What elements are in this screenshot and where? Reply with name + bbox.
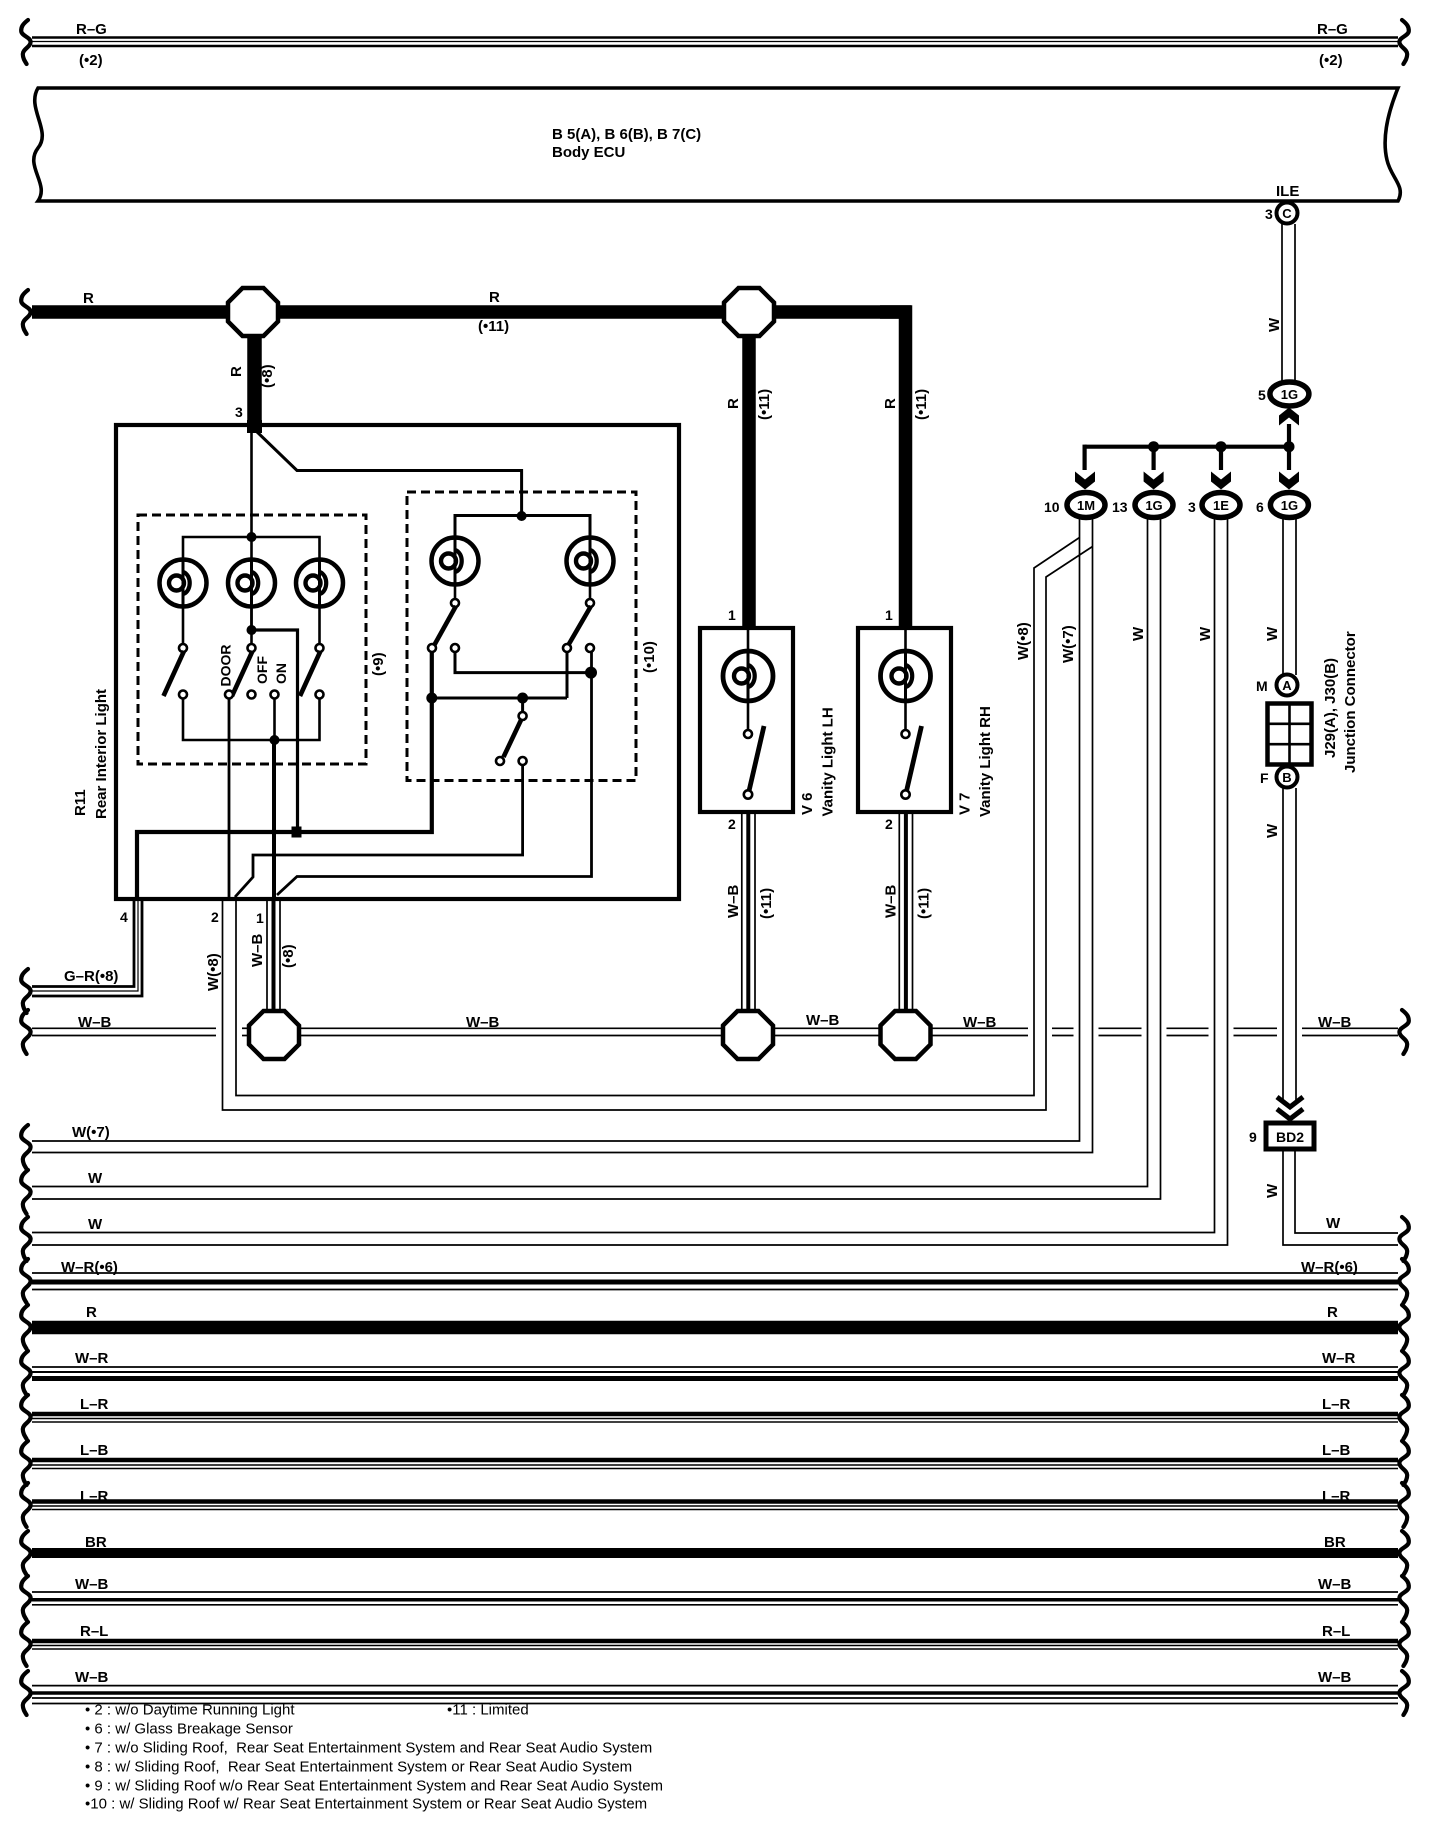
svg-text:B: B [1282, 770, 1291, 785]
V7 switch top contact [902, 730, 910, 738]
svg-text:A: A [1282, 678, 1292, 693]
switch6 top contact [519, 712, 527, 720]
wire pin4 G-R out [32, 901, 134, 987]
svg-text:3: 3 [1265, 206, 1273, 222]
switch6 contact b [519, 757, 527, 765]
switch1 bottom contact [179, 691, 187, 699]
svg-text:4: 4 [120, 909, 128, 925]
wire band BR [32, 1548, 1398, 1558]
svg-text:R–G: R–G [1317, 21, 1348, 38]
wire pin2 W(.8) out [236, 538, 1080, 1096]
continuation curl left band L-R [21, 1395, 30, 1439]
wire 1G13 W down to band2 [32, 518, 1148, 1187]
switch5 contact a [563, 644, 571, 652]
wire switch5a riser [566, 652, 569, 698]
svg-text:W–B: W–B [466, 1014, 500, 1031]
wire ON branch to G-R link [252, 630, 298, 832]
wire R-G (top battery line) [32, 38, 1398, 47]
link bus in box .10 [432, 697, 567, 700]
svg-text:(•2): (•2) [1319, 52, 1343, 69]
R11 Rear Interior Light box [116, 425, 679, 899]
V6 Vanity Light LH box [700, 628, 793, 812]
continuation curl right band L-R [1399, 1395, 1408, 1439]
svg-text:•11 : Limited: •11 : Limited [447, 1702, 529, 1719]
svg-text:• 8 : w/ Sliding Roof, Rear S: • 8 : w/ Sliding Roof, Rear Seat Enterta… [85, 1759, 632, 1776]
entry tab pin3 [247, 420, 262, 433]
svg-text:M: M [1256, 678, 1268, 694]
arrow down into 1M [1075, 472, 1095, 490]
continuation curl band2 [21, 1170, 30, 1214]
wire band W-R(.6) [32, 1273, 1398, 1290]
connector C circle [1277, 203, 1298, 224]
svg-text:1: 1 [885, 607, 893, 623]
switch4 contact a [428, 644, 436, 652]
continuation curl right band W-B 2 [1399, 1576, 1408, 1620]
continuation curl band3 [21, 1217, 30, 1261]
wire band L-R 2 [32, 1502, 1398, 1510]
svg-text:W: W [1264, 626, 1281, 641]
wire band R-L [32, 1641, 1398, 1649]
svg-text:W–B: W–B [1318, 1014, 1352, 1031]
switch5 contact b [586, 644, 594, 652]
svg-text:(•11): (•11) [913, 389, 930, 420]
wire pin1 W-B out [266, 901, 268, 1013]
junction dot [270, 735, 280, 745]
svg-text:W(•7): W(•7) [72, 1124, 110, 1141]
svg-text:R–L: R–L [80, 1623, 108, 1640]
bus to connectors [1085, 445, 1289, 449]
svg-text:W–B: W–B [249, 934, 266, 968]
junction dot [426, 693, 437, 704]
switch3 arm [300, 651, 321, 696]
svg-text:W–B: W–B [963, 1014, 997, 1031]
continuation curl left of R-G [21, 20, 30, 64]
switch3 bottom contact [316, 691, 324, 699]
switch5 top contact [586, 599, 594, 607]
svg-text:W: W [1264, 823, 1281, 838]
contact OFF [248, 691, 256, 699]
wire W-B main drop (pin1) [272, 740, 276, 899]
junction dot [247, 532, 257, 542]
svg-text:W–B: W–B [883, 885, 900, 919]
junction dot feed [517, 511, 527, 521]
arrow down into 1G6 [1279, 472, 1299, 490]
svg-text:R–G: R–G [76, 21, 107, 38]
svg-text:R: R [83, 290, 94, 307]
continuation curl right band L-B [1399, 1441, 1408, 1485]
svg-text:R: R [489, 289, 500, 306]
svg-text:(•8): (•8) [280, 944, 297, 968]
svg-text:W–B: W–B [806, 1012, 840, 1029]
arrow down into 1G13 [1144, 472, 1164, 490]
svg-text:1M: 1M [1077, 498, 1095, 513]
junction dot [1216, 441, 1227, 452]
svg-text:1G: 1G [1145, 498, 1162, 513]
svg-text:BD2: BD2 [1276, 1129, 1304, 1145]
svg-text:V 6: V 6 [799, 792, 816, 815]
arrow chevrons into BD2 [1277, 1097, 1303, 1107]
continuation curl left band R [21, 1305, 30, 1349]
continuation curl right band W-R [1399, 1351, 1408, 1395]
switch2 top contact [248, 644, 256, 652]
wire ILE W (C to 1G) [1281, 224, 1283, 381]
wire diagonal feed to variant-10 box [254, 429, 522, 518]
arrow down into 1E [1211, 472, 1231, 490]
junction blob on G-R link [292, 827, 302, 838]
continuation curl right of W-B [1399, 1010, 1408, 1054]
continuation curl right of R-G [1399, 20, 1408, 64]
svg-text:(•9): (•9) [370, 652, 387, 676]
wire 1G6 W down to junction connector [1282, 518, 1284, 676]
svg-text:W–R: W–R [75, 1350, 109, 1367]
svg-text:• 9 : w/ Sliding Roof w/o Rear: • 9 : w/ Sliding Roof w/o Rear Seat Ente… [85, 1778, 663, 1795]
svg-text:(•10): (•10) [641, 641, 658, 673]
stub to 1G6 [1287, 447, 1291, 470]
svg-text:10: 10 [1044, 499, 1060, 515]
svg-text:(•11): (•11) [916, 888, 933, 919]
lamp 5 [567, 538, 614, 585]
svg-text:R: R [1327, 1304, 1338, 1321]
junction blob [585, 667, 597, 679]
svg-text:R: R [882, 398, 899, 409]
switch1 top contact [179, 644, 187, 652]
svg-text:BR: BR [1324, 1534, 1346, 1551]
BD2 box [1266, 1123, 1314, 1149]
svg-text:W–R(•6): W–R(•6) [1301, 1259, 1358, 1276]
lamp 3 [296, 560, 343, 607]
svg-text:L–B: L–B [80, 1442, 109, 1459]
lamp 4 [432, 538, 479, 585]
svg-text:B 5(A), B 6(B), B 7(C): B 5(A), B 6(B), B 7(C) [552, 126, 701, 143]
svg-text:Junction Connector: Junction Connector [1342, 631, 1359, 773]
svg-text:W: W [88, 1170, 103, 1187]
svg-text:(•2): (•2) [79, 52, 103, 69]
switch2 arm [232, 651, 253, 696]
wire B down to BD2 [1282, 788, 1284, 1100]
svg-text:L–R: L–R [1322, 1488, 1351, 1505]
svg-text:W–B: W–B [78, 1014, 112, 1031]
svg-text:6: 6 [1256, 499, 1264, 515]
connector 1G oval (pin13) [1135, 493, 1173, 518]
wire lamp4 to switch [454, 585, 457, 599]
riser from ON contact [273, 699, 276, 741]
svg-text:W: W [1266, 317, 1283, 332]
V7 switch arm [907, 726, 922, 791]
junction dot [1284, 441, 1295, 452]
svg-text:R–L: R–L [1322, 1623, 1350, 1640]
svg-text:3: 3 [235, 404, 243, 420]
svg-text:(•8): (•8) [259, 364, 276, 388]
svg-text:W–B: W–B [725, 885, 742, 919]
wire W-B ground bus [32, 1028, 1398, 1035]
arrow up into 1G [1279, 408, 1299, 426]
lamp V6 [723, 651, 773, 701]
continuation curl right band BR [1399, 1531, 1408, 1575]
dashed box variant (.9) [138, 515, 366, 764]
ground junction octagon V6 [723, 1011, 773, 1059]
wire 1E W down to band3 [32, 518, 1215, 1233]
connector 1E oval [1202, 493, 1240, 518]
wire V7 lamp to switch [904, 701, 907, 730]
svg-text:W–B: W–B [1318, 1669, 1352, 1686]
svg-text:C: C [1282, 206, 1292, 221]
continuation curl right band R-L [1399, 1622, 1408, 1666]
junction octagon on R bus at R11 drop [228, 288, 278, 336]
svg-text:W(•8): W(•8) [205, 953, 222, 991]
svg-text:W: W [1326, 1215, 1341, 1232]
svg-text:Vanity Light LH: Vanity Light LH [820, 707, 837, 816]
V6 switch bottom contact [744, 790, 752, 798]
svg-text:ON: ON [273, 663, 289, 684]
wire lamp1 to switch [182, 607, 185, 645]
continuation curl G-R [21, 969, 30, 1013]
svg-text:9: 9 [1249, 1129, 1257, 1145]
wire band L-B [32, 1460, 1398, 1469]
svg-text:Rear Interior Light: Rear Interior Light [93, 689, 110, 819]
continuation curl left band L-R 2 [21, 1483, 30, 1527]
wire band R [32, 1321, 1398, 1335]
svg-text:Vanity Light RH: Vanity Light RH [977, 706, 994, 817]
svg-text:W: W [88, 1216, 103, 1233]
junction connector A circle [1277, 675, 1298, 696]
wire BD2 down to band3 right [1283, 1151, 1398, 1245]
svg-text:L–R: L–R [80, 1396, 109, 1413]
svg-text:L–R: L–R [1322, 1396, 1351, 1413]
lamp 1 [160, 560, 207, 607]
wire R main bus [32, 305, 911, 319]
wire contact b to blob [455, 652, 591, 673]
svg-text:W–B: W–B [75, 1669, 109, 1686]
svg-text:R: R [725, 398, 742, 409]
lamp bus in box .10 [455, 516, 590, 560]
stub to 1M [1082, 445, 1086, 470]
svg-text:F: F [1260, 770, 1269, 786]
switch5 arm [568, 606, 592, 647]
continuation curl band3 right [1399, 1217, 1408, 1261]
svg-text:2: 2 [885, 816, 893, 832]
wire lamp3 to switch [318, 607, 321, 645]
svg-text:2: 2 [728, 816, 736, 832]
continuation curl left band L-B [21, 1441, 30, 1485]
wire stub 1G to bus [1287, 424, 1291, 448]
svg-text:V 7: V 7 [957, 792, 974, 815]
ground junction octagon R11 [249, 1011, 299, 1059]
wire R elbow to V7 [880, 312, 906, 630]
continuation curl left band W-B 3 [21, 1671, 30, 1715]
junction octagon on R bus at V6 drop [724, 288, 774, 336]
continuation curl left band W-R [21, 1351, 30, 1395]
svg-text:1G: 1G [1281, 498, 1298, 513]
svg-text:• 7 : w/o Sliding Roof, Rear: • 7 : w/o Sliding Roof, Rear Seat Entert… [85, 1740, 652, 1757]
junction connector grid [1268, 704, 1312, 765]
svg-text:ILE: ILE [1276, 183, 1299, 200]
svg-text:L–R: L–R [80, 1488, 109, 1505]
bottom bus of box .9 [183, 699, 320, 741]
V6 switch top contact [744, 730, 752, 738]
Body ECU band B5(A),B6(B),B7(C) [34, 88, 1401, 201]
continuation curl left band W-B 2 [21, 1576, 30, 1620]
wire band W-B 2 [32, 1592, 1398, 1605]
continuation curl left of W-B [21, 1010, 30, 1054]
junction dot on lamp2 wire [247, 625, 257, 635]
svg-text:5: 5 [1258, 387, 1266, 403]
svg-text:• 6 : w/ Glass Breakage Sensor: • 6 : w/ Glass Breakage Sensor [85, 1721, 293, 1738]
wire G-R link (pin4 to variant-10 box) [137, 651, 432, 898]
continuation curl left band R-L [21, 1622, 30, 1666]
svg-text:(•11): (•11) [478, 318, 509, 335]
svg-text:W(•8): W(•8) [1015, 622, 1032, 660]
ground junction octagon V7 [881, 1011, 931, 1059]
svg-text:W: W [1264, 1183, 1281, 1198]
svg-text:1: 1 [256, 910, 264, 926]
switch4 arm [434, 606, 457, 647]
svg-text:OFF: OFF [254, 656, 270, 684]
wire lamp5 to switch [589, 585, 592, 599]
wire DOOR drop (pin2) [228, 699, 231, 900]
continuation curl right band W-B 3 [1399, 1671, 1408, 1715]
svg-text:W(•7): W(•7) [1060, 625, 1077, 663]
svg-text:Body ECU: Body ECU [552, 144, 625, 161]
svg-text:2: 2 [211, 909, 219, 925]
svg-text:R: R [86, 1304, 97, 1321]
svg-text:(•11): (•11) [758, 888, 775, 919]
continuation curl left band BR [21, 1531, 30, 1575]
wire band L-R [32, 1414, 1398, 1422]
svg-text:13: 13 [1112, 499, 1128, 515]
svg-text:W: W [1197, 626, 1214, 641]
lamp V7 [881, 651, 931, 701]
dashed box variant (.10) [407, 492, 636, 781]
junction dot [517, 693, 528, 704]
switch3 top contact [316, 644, 324, 652]
svg-text:1E: 1E [1213, 498, 1229, 513]
svg-text:•10 : w/ Sliding Roof w/ Rear: •10 : w/ Sliding Roof w/ Rear Seat Enter… [85, 1796, 647, 1813]
wire V7 W-B out [898, 812, 900, 1011]
lamp bus in box .9 [183, 537, 320, 559]
wire band W-B 3 [32, 1686, 1398, 1704]
wire R drop to V6 [742, 330, 756, 630]
wire band W-R [32, 1367, 1398, 1379]
lamp 2 [228, 560, 275, 607]
switch6 contact a [496, 757, 504, 765]
svg-text:1G: 1G [1281, 387, 1298, 402]
wire R drop to R11 pin 3 [247, 330, 262, 424]
wire variant-10 right switch to pin1 [277, 651, 592, 895]
wire V6 lamp feed [747, 630, 750, 653]
wire 1M W(.7) down to band1 [32, 518, 1080, 1142]
switch6 stub [521, 698, 524, 712]
contact DOOR [225, 691, 233, 699]
continuation curl left of R bus [21, 290, 30, 334]
wire V6 W-B out [741, 812, 743, 1011]
connector 1M oval [1067, 493, 1105, 518]
wire V6 lamp to switch [747, 701, 750, 730]
svg-text:W–R: W–R [1322, 1350, 1356, 1367]
continuation curl right band L-R 2 [1399, 1483, 1408, 1527]
stub to 1E [1219, 447, 1223, 470]
V6 switch arm [749, 726, 764, 791]
svg-text:W–R(•6): W–R(•6) [61, 1259, 118, 1276]
svg-text:W–B: W–B [1318, 1576, 1352, 1593]
continuation curl right band W-R(.6) [1399, 1259, 1408, 1303]
svg-text:R11: R11 [72, 789, 89, 816]
junction connector B circle [1277, 767, 1298, 788]
svg-text:• 2 : w/o Daytime Running Ligh: • 2 : w/o Daytime Running Light [85, 1702, 295, 1719]
continuation curl right band R [1399, 1305, 1408, 1349]
svg-text:DOOR: DOOR [218, 645, 234, 687]
svg-text:3: 3 [1188, 499, 1196, 515]
V7 Vanity Light RH box [858, 628, 951, 812]
svg-text:W: W [1130, 626, 1147, 641]
svg-text:L–B: L–B [1322, 1442, 1351, 1459]
V7 switch bottom contact [901, 790, 909, 798]
stub to 1G13 [1151, 447, 1155, 470]
connector 1G oval (pin5) [1270, 382, 1309, 406]
contact ON [271, 691, 279, 699]
svg-text:BR: BR [85, 1534, 107, 1551]
wire entry to lamp bus [250, 428, 253, 630]
switch1 arm [164, 651, 185, 696]
svg-text:(•11): (•11) [756, 389, 773, 420]
wire V7 lamp feed [904, 630, 907, 653]
connector 1G oval (pin6) [1270, 493, 1308, 518]
switch4 contact b [451, 644, 459, 652]
switch4 top contact [451, 599, 459, 607]
wire lamp2 to switch [250, 607, 253, 645]
svg-text:W–B: W–B [75, 1576, 109, 1593]
junction dot [1148, 441, 1159, 452]
switch6 arm [504, 719, 522, 757]
continuation curl band1 [21, 1125, 30, 1169]
svg-text:1: 1 [728, 607, 736, 623]
svg-text:G–R(•8): G–R(•8) [64, 968, 118, 985]
continuation curl left band W-R(.6) [21, 1259, 30, 1303]
svg-text:R: R [228, 366, 245, 377]
wire DOOR variant link [235, 765, 523, 897]
svg-text:J29(A), J30(B): J29(A), J30(B) [1322, 658, 1339, 758]
